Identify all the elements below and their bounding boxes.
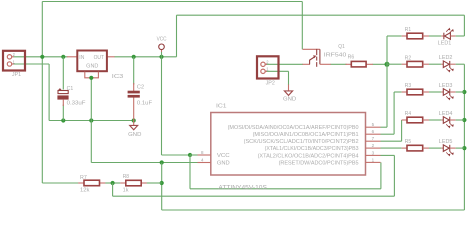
svg-text:GND: GND — [283, 97, 296, 103]
wire JP2 pin2 to Q1 gate — [266, 63, 303, 65]
wire divider row R7 R8 — [42, 182, 78, 184]
LED LED4 — [439, 111, 465, 128]
wire PB2 riser to R4 row — [381, 140, 402, 142]
node right rail row5 — [462, 146, 466, 150]
svg-text:R5: R5 — [405, 139, 411, 145]
svg-text:R3: R3 — [405, 83, 411, 89]
IC1 pin 6 PB1 — [253, 129, 381, 138]
wire Q1 source to R6 — [331, 63, 347, 65]
wire R1 to LED1 — [423, 35, 429, 37]
svg-text:0.33uF: 0.33uF — [67, 101, 87, 107]
resistor R5 — [407, 145, 423, 151]
resistor R8 — [120, 174, 147, 194]
wire row2 left — [387, 63, 402, 65]
node IC3 gnd bracket — [89, 76, 93, 80]
wire divider sense to PB4 — [112, 183, 114, 196]
svg-text:ATTINY45V-10S: ATTINY45V-10S — [218, 184, 267, 191]
svg-text:LED2: LED2 — [439, 55, 453, 61]
wire C1 top lead — [62, 57, 64, 90]
ground symbol under JP2 — [283, 85, 296, 103]
svg-text:JP1: JP1 — [12, 72, 21, 78]
svg-text:(RESET/DW/ADC0/PCINT5)PB5: (RESET/DW/ADC0/PCINT5)PB5 — [279, 160, 359, 166]
wire ground rail under C1/IC3/C2 — [49, 120, 134, 122]
IC1 pin 3 PB4 — [258, 150, 381, 159]
svg-text:IC1: IC1 — [216, 103, 227, 109]
svg-text:(XTAL2/CLKO/OC1B/ADC2/PCINT4)P: (XTAL2/CLKO/OC1B/ADC2/PCINT4)PB4 — [258, 153, 359, 159]
wire GND row to IC1 pin 4 — [91, 162, 197, 164]
wire R3 to LED3 — [423, 91, 429, 93]
wire R6 to LED bus junction — [373, 63, 388, 65]
wire VCC riser corner to top rail — [176, 15, 178, 57]
svg-text:GND: GND — [86, 63, 98, 69]
svg-text:(SCK/USCK/SCL/ADC1/T0/INT0/PCI: (SCK/USCK/SCL/ADC1/T0/INT0/PCINT2)PB2 — [244, 139, 359, 145]
LED LED1 — [438, 28, 465, 46]
wire C1 bottom lead — [62, 105, 64, 121]
svg-text:R8: R8 — [123, 174, 129, 180]
IC U1 ATTINY45 box — [211, 113, 366, 176]
wire row4 left — [402, 119, 407, 121]
ground symbol under C2 — [128, 121, 141, 138]
wire 12V descender to R7 — [41, 57, 43, 183]
wire Q1 drain riser from top rail — [301, 2, 303, 50]
svg-text:C1: C1 — [67, 86, 74, 92]
svg-text:(MISO/DO/AIN1/OC0B/OC1A/PCINT1: (MISO/DO/AIN1/OC0B/OC1A/PCINT1)PB1 — [253, 132, 359, 138]
wire LED anode right rail rows2-5 — [463, 64, 465, 210]
wire R4 to LED4 — [423, 119, 429, 121]
node GND row branch down — [160, 160, 164, 164]
svg-text:(XTAL1/CLKI/OC1B/ADC3/PCINT3)P: (XTAL1/CLKI/OC1B/ADC3/PCINT3)PB3 — [265, 146, 359, 152]
transistor Q1 IRF540 — [303, 49, 331, 67]
node 12V junction at JP1 riser — [40, 55, 44, 59]
wire VCC top rail to LED1 anode column — [177, 14, 465, 16]
node gnd rail at IC3 GND — [89, 118, 93, 122]
wire row1 left — [387, 35, 402, 37]
svg-text:1k: 1k — [123, 188, 129, 194]
node gnd rail at C1 — [61, 118, 65, 122]
wire LED bus vertical PB0 — [386, 36, 388, 127]
svg-text:C2: C2 — [137, 85, 144, 91]
node divider junction R7/R8 — [111, 181, 115, 185]
svg-text:LED5: LED5 — [439, 139, 453, 145]
svg-text:VCC: VCC — [157, 36, 167, 42]
capacitor C1 (polarized) — [57, 86, 86, 107]
svg-text:IC3: IC3 — [112, 74, 124, 80]
svg-text:R2: R2 — [405, 55, 411, 61]
wire VCC descender to IC1 — [161, 57, 163, 155]
svg-text:12k: 12k — [80, 188, 90, 194]
wire row3 left — [394, 91, 402, 93]
node VCC at IC1 pin 8 — [188, 153, 192, 157]
node VCC at C2 top — [132, 55, 136, 59]
node GND at R8 right — [160, 181, 164, 185]
svg-text:R6: R6 — [348, 55, 355, 61]
wire top rail 12V from JP1 riser to Q1 drain column — [42, 1, 302, 3]
svg-text:R1: R1 — [405, 27, 411, 33]
wire R2 to LED2 — [423, 63, 429, 65]
wire VCC symbol stub — [161, 50, 163, 52]
svg-text:LED1: LED1 — [438, 41, 452, 47]
resistor R6 — [346, 55, 373, 67]
resistor R1 — [407, 33, 423, 39]
svg-text:R4: R4 — [405, 111, 411, 117]
wire R5 to LED5 — [423, 147, 429, 149]
svg-text:VCC: VCC — [217, 153, 230, 159]
svg-text:OUT: OUT — [94, 55, 105, 61]
wire VCC pin8 green stub — [190, 154, 198, 156]
svg-text:GND: GND — [128, 132, 141, 138]
power symbol VCC — [157, 36, 167, 49]
IC1 pin 8 VCC — [198, 150, 230, 159]
IC1 pin 1 PB5 — [279, 157, 381, 166]
IC1 pin 2 PB3 — [265, 143, 381, 152]
LED LED2 — [439, 55, 465, 72]
svg-text:(MOSI/DI/SDA/AIN0/OC0A/OC1A/AR: (MOSI/DI/SDA/AIN0/OC0A/OC1A/AREF/PCINT0)… — [228, 125, 359, 131]
wire LED1 anode to VCC rail corner — [463, 15, 465, 36]
wire bottom GND rail to LED anode rail — [162, 209, 465, 211]
resistor R4 — [407, 117, 423, 123]
svg-text:JP2: JP2 — [266, 81, 275, 87]
wire PB0 stub — [381, 126, 388, 128]
wire IC3 GND descender — [90, 78, 92, 163]
IC1 pin 5 PB0 — [228, 122, 381, 131]
wire VCC rail from IC3 OUT — [114, 56, 176, 58]
wire PB3 row to R5 — [381, 147, 402, 149]
wire row5 left — [402, 147, 407, 149]
resistor R7 — [78, 175, 105, 194]
svg-text:IN: IN — [79, 55, 84, 61]
svg-text:0.1uF: 0.1uF — [137, 101, 153, 107]
LED LED3 — [439, 83, 465, 100]
svg-text:LED3: LED3 — [439, 83, 453, 89]
IC1 pin 7 PB2 — [244, 136, 381, 145]
wire GND descender to bottom rail — [161, 163, 163, 211]
node right rail row4 — [462, 118, 466, 122]
node VCC at VCC symbol — [159, 55, 163, 59]
svg-text:GND: GND — [217, 161, 230, 167]
svg-text:LED4: LED4 — [439, 111, 453, 117]
node 12V junction at C1 — [61, 55, 65, 59]
IC1 pin 4 GND — [198, 158, 230, 167]
svg-text:R7: R7 — [80, 175, 87, 181]
wire 12V JP1 riser vertical — [41, 2, 43, 58]
svg-text:IRF540: IRF540 — [324, 52, 347, 58]
wire JP1 pin2 to IC3 IN — [14, 56, 68, 58]
connector JP2 — [257, 56, 279, 86]
wire RESET to VCC U-route — [189, 155, 191, 189]
LED LED5 — [439, 139, 465, 156]
wire PB4 stub to divider descender — [381, 154, 395, 156]
wire JP2 pin1 to GND — [266, 70, 289, 72]
wire PB1 riser to R3 row — [381, 133, 395, 135]
node gnd rail at C2 / GND symbol — [132, 118, 136, 122]
svg-text:Q1: Q1 — [338, 44, 345, 50]
node right rail row3 — [462, 90, 466, 94]
capacitor C2 — [128, 83, 153, 121]
wire C2 top lead green — [133, 57, 135, 85]
resistor R3 — [407, 89, 423, 95]
node LED bus junction — [385, 62, 390, 67]
voltage regulator IC3 — [67, 51, 123, 80]
resistor R2 — [407, 61, 423, 67]
wire JP1 pin1 ground branch — [14, 63, 50, 65]
connector JP1 — [3, 51, 25, 78]
